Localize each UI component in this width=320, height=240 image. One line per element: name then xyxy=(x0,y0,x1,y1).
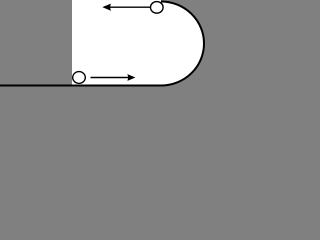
top velocity arrowhead xyxy=(102,4,111,11)
bottom velocity arrow (rightward) shaft xyxy=(91,77,130,79)
ball at top of loop xyxy=(151,2,164,14)
ground line xyxy=(0,85,162,87)
bottom velocity arrowhead xyxy=(127,74,135,81)
gray background xyxy=(0,0,206,117)
top velocity arrow (leftward) shaft xyxy=(110,6,150,8)
ball on ground xyxy=(73,72,86,84)
loop arc xyxy=(161,2,204,86)
white track interior (rectangle + right half-ellipse loop) xyxy=(72,0,204,86)
